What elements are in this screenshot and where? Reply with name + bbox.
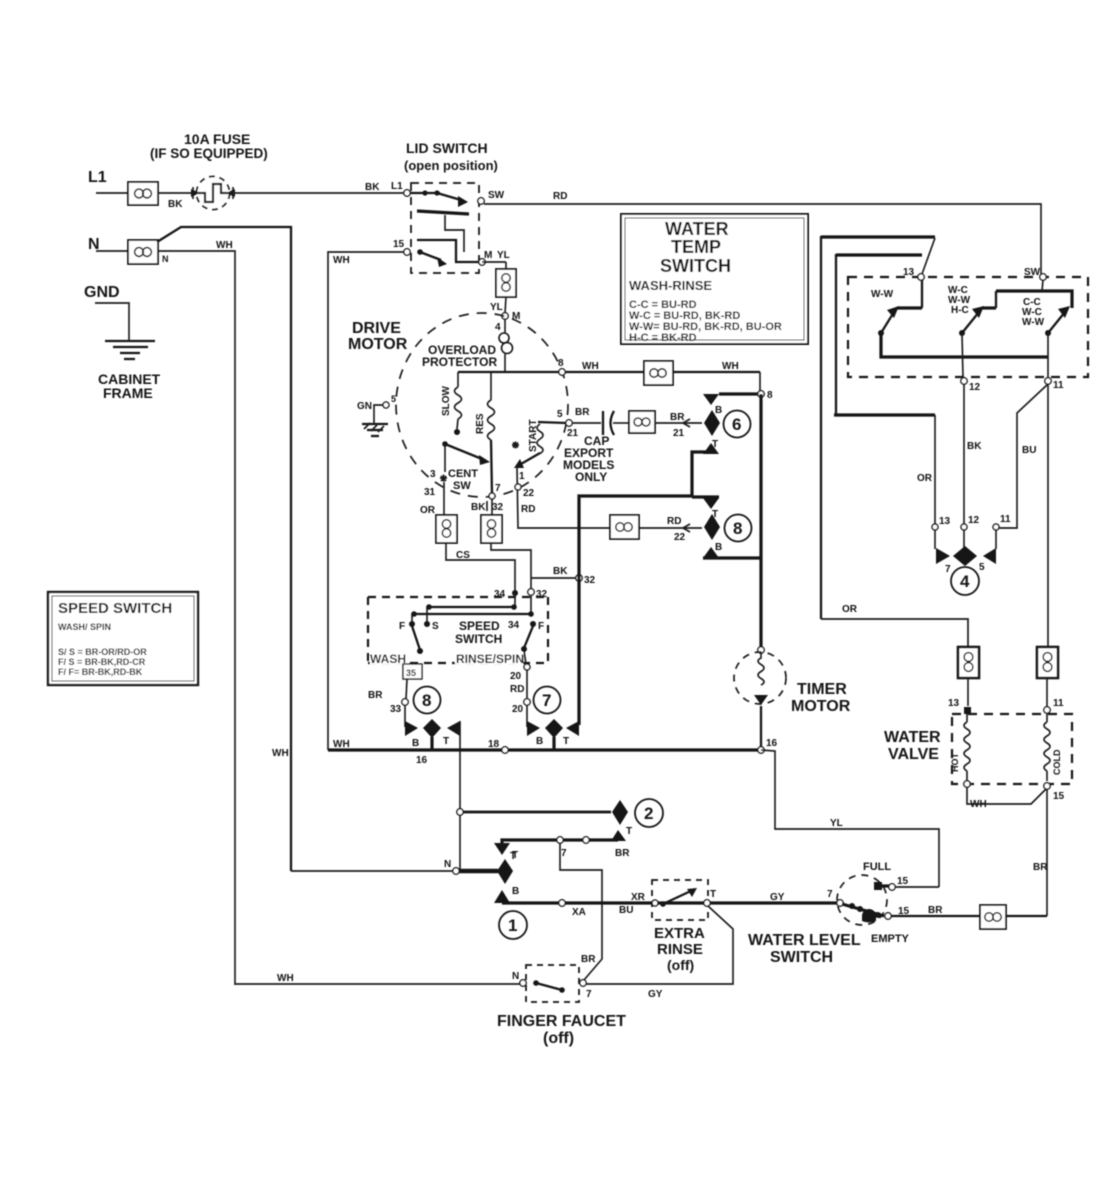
svg-text:T: T: [443, 736, 449, 747]
node 20: [512, 699, 530, 727]
svg-text:EXTRA: EXTRA: [654, 925, 705, 942]
label WATER LEVEL SWITCH: [748, 932, 861, 966]
wire motor bus: [458, 371, 760, 373]
svg-text:WH: WH: [333, 255, 350, 266]
svg-text:T: T: [563, 736, 569, 747]
lid switch S1 box: [411, 183, 479, 273]
svg-text:WH: WH: [272, 748, 289, 759]
svg-text:WASH: WASH: [370, 652, 406, 666]
node M lid switch: [479, 250, 510, 265]
svg-text:SWITCH: SWITCH: [660, 256, 731, 276]
terminal connector 1 diamond: [459, 850, 519, 903]
svg-text:COLD: COLD: [1052, 749, 1062, 775]
connector RD box: [610, 515, 639, 539]
svg-text:(off): (off): [667, 957, 694, 973]
svg-text:MOTOR: MOTOR: [348, 336, 408, 353]
node junction 812: [457, 809, 463, 815]
svg-text:RES: RES: [475, 413, 486, 434]
svg-text:(off): (off): [543, 1030, 574, 1047]
svg-text:22: 22: [523, 488, 535, 499]
svg-text:M: M: [484, 250, 492, 261]
svg-text:WATER: WATER: [665, 219, 729, 239]
svg-text:SWITCH: SWITCH: [770, 949, 833, 966]
coil RES main winding: [475, 372, 495, 494]
svg-text:11: 11: [1000, 514, 1011, 525]
circle 8: [725, 515, 752, 542]
node 32 top: [528, 589, 548, 600]
wire WH to N node: [291, 870, 453, 872]
terminal bracket connector 8 lower: [405, 719, 460, 749]
svg-text:B: B: [715, 542, 722, 553]
label WASH: [370, 652, 408, 666]
node 11 lower: [993, 514, 1011, 530]
svg-text:B: B: [512, 886, 519, 897]
svg-text:7: 7: [561, 848, 567, 859]
svg-text:SWITCH: SWITCH: [455, 632, 502, 646]
svg-text:BR: BR: [670, 412, 685, 423]
node 8 motor bus: [558, 358, 599, 375]
wire L1 lead: [96, 192, 128, 194]
svg-text:F/ F= BR-BK,RD-BK: F/ F= BR-BK,RD-BK: [58, 667, 143, 677]
extra rinse dashed box: [652, 880, 708, 920]
svg-text:18: 18: [488, 739, 500, 750]
connector L1: [128, 182, 158, 205]
svg-text:33: 33: [390, 704, 402, 715]
node 18 bus: [488, 739, 508, 753]
coil HOT valve: [950, 714, 970, 781]
node 3 / 31 column: [420, 444, 447, 516]
svg-text:T: T: [626, 826, 632, 837]
svg-text:32: 32: [584, 575, 596, 586]
svg-text:12: 12: [968, 515, 980, 526]
svg-text:RD: RD: [510, 684, 524, 695]
svg-text:35: 35: [406, 668, 416, 678]
svg-text:TIMER: TIMER: [797, 681, 847, 698]
water valve dashed box: [952, 714, 1072, 784]
connector WH motor line: [644, 361, 739, 385]
node valve bottom left: [964, 781, 970, 787]
svg-text:21: 21: [567, 428, 579, 439]
svg-text:BK: BK: [365, 182, 380, 193]
svg-text:RINSE: RINSE: [657, 941, 703, 958]
label SPEED SWITCH inner: [455, 619, 502, 646]
svg-text:15: 15: [393, 239, 405, 250]
terminal bracket connector 4: [935, 530, 996, 575]
svg-text:BR: BR: [575, 407, 590, 418]
ground GN motor: [357, 394, 396, 436]
svg-text:SW: SW: [488, 190, 505, 201]
svg-text:SPEED SWITCH: SPEED SWITCH: [58, 600, 172, 617]
svg-text:3: 3: [430, 469, 436, 480]
wire CS link: [446, 543, 515, 592]
svg-text:GY: GY: [770, 892, 785, 903]
coil COLD connector box: [1037, 647, 1058, 707]
svg-text:7: 7: [495, 483, 501, 494]
terminal bracket connector 6: [692, 394, 758, 496]
water temp switch dashed box: [848, 277, 1088, 377]
svg-text:N: N: [162, 254, 169, 264]
node 15 valve: [1044, 783, 1065, 802]
wire bus 903: [502, 892, 837, 918]
wire start output to RD row: [515, 467, 610, 528]
svg-text:START: START: [528, 419, 539, 452]
connector N: [128, 240, 169, 264]
svg-text:DRIVE: DRIVE: [352, 320, 401, 337]
svg-text:8: 8: [733, 519, 742, 538]
svg-text:BR: BR: [368, 690, 383, 701]
circle 2: [635, 799, 663, 827]
switch W-C contact: [948, 285, 996, 336]
svg-text:YL: YL: [830, 818, 843, 829]
wire thick elbow RD22: [579, 496, 692, 725]
water level switch dashed circle: [837, 875, 887, 925]
svg-text:1: 1: [519, 471, 525, 482]
wire T column down: [459, 721, 461, 869]
terminal bracket connector 7 lower: [527, 719, 579, 749]
switch rinse contact: [510, 626, 533, 698]
node 11: [1045, 378, 1064, 391]
wire WH corner to node 8 right: [759, 372, 761, 391]
svg-text:YL: YL: [490, 302, 503, 313]
label 10A FUSE: [150, 131, 268, 161]
svg-text:XR: XR: [631, 892, 646, 903]
svg-text:BR: BR: [928, 905, 943, 916]
svg-text:BR: BR: [1033, 862, 1048, 873]
svg-text:34: 34: [494, 589, 506, 600]
switch wash contact: [412, 626, 423, 654]
svg-text:15: 15: [1053, 791, 1065, 802]
svg-text:(IF SO EQUIPPED): (IF SO EQUIPPED): [150, 146, 268, 161]
svg-text:8: 8: [422, 691, 431, 710]
svg-text:PROTECTOR: PROTECTOR: [422, 355, 497, 369]
node N label: [88, 236, 100, 253]
svg-text:1: 1: [508, 916, 517, 935]
label OVERLOAD PROTECTOR: [422, 343, 497, 369]
svg-text:34: 34: [508, 620, 520, 631]
svg-text:T: T: [512, 850, 518, 861]
node 7 wls: [827, 889, 843, 906]
svg-text:BK: BK: [471, 502, 486, 513]
svg-text:GY: GY: [648, 989, 663, 1000]
finger faucet dashed box: [526, 965, 579, 1002]
svg-text:T: T: [710, 889, 716, 900]
svg-text:WH: WH: [277, 973, 294, 984]
svg-text:WASH-RINSE: WASH-RINSE: [629, 278, 712, 293]
svg-text:B: B: [536, 736, 543, 747]
speed switch terminals: [399, 620, 544, 632]
node 32 right: [576, 575, 596, 586]
switch wls contact: [842, 903, 884, 922]
coil START winding: [537, 424, 543, 454]
svg-text:W-W: W-W: [1022, 317, 1045, 328]
svg-text:N: N: [512, 971, 519, 982]
timer motor: [734, 647, 786, 749]
svg-text:WH: WH: [216, 240, 233, 251]
svg-text:BU: BU: [619, 905, 633, 916]
node L1 lid switch: [404, 190, 410, 196]
svg-text:TEMP: TEMP: [671, 237, 721, 257]
wire WH valve jumper: [967, 787, 1046, 810]
coil connector OR box: [436, 515, 457, 543]
label RINSE/SPIN: [455, 652, 524, 666]
label DRIVE MOTOR: [348, 320, 408, 353]
svg-text:OR: OR: [917, 473, 933, 484]
svg-text:RD: RD: [553, 191, 567, 202]
inner box BK path: [834, 254, 935, 415]
svg-text:N: N: [444, 859, 451, 870]
svg-text:L1: L1: [391, 181, 403, 192]
label EXTRA RINSE: [654, 925, 705, 973]
label LID SWITCH: [404, 140, 498, 173]
terminal 35 box: [403, 664, 422, 699]
svg-text:F: F: [399, 621, 405, 632]
svg-text:SW: SW: [453, 480, 471, 492]
node SW lid switch: [478, 190, 505, 204]
wire BK 12 down: [964, 384, 982, 524]
wire EMPTY to connector: [891, 915, 980, 917]
outer box OR path: [821, 236, 935, 619]
connector BR box wls: [980, 905, 1006, 929]
fuse F1 10A: [191, 177, 235, 210]
svg-text:MOTOR: MOTOR: [791, 698, 851, 715]
svg-text:5: 5: [557, 409, 563, 420]
label WATER TEMP SWITCH box: [621, 214, 808, 344]
svg-text:12: 12: [969, 382, 981, 393]
wire BU 11 diagonal down: [999, 384, 1048, 528]
wire BR valve down: [1033, 789, 1048, 916]
wire YL riser: [761, 750, 939, 887]
svg-text:WH: WH: [722, 361, 739, 372]
node 12 lower: [961, 515, 980, 530]
svg-text:OR: OR: [842, 604, 858, 615]
svg-text:32: 32: [492, 502, 504, 513]
coil M-YL connector box: [482, 262, 516, 313]
speed switch legend box: [48, 592, 198, 685]
wire node12 branch: [962, 333, 963, 378]
wire SW to RD top run: [484, 191, 1041, 274]
wire BR row from start coil: [538, 409, 566, 423]
node EMPTY: [871, 905, 943, 945]
label CAP EXPORT MODELS ONLY: [563, 434, 614, 484]
switch C-C contact: [996, 291, 1072, 336]
wire BR to diamond 6: [655, 412, 702, 439]
svg-text:RINSE/SPIN: RINSE/SPIN: [456, 652, 524, 666]
svg-text:13: 13: [903, 267, 915, 278]
wire to connector 2: [463, 811, 611, 814]
svg-text:5: 5: [979, 562, 985, 573]
svg-text:L1: L1: [88, 169, 107, 186]
svg-text:EMPTY: EMPTY: [871, 933, 910, 945]
svg-text:H-C: H-C: [951, 305, 969, 316]
svg-text:11: 11: [1053, 380, 1064, 391]
wire BK connector to fuse: [158, 193, 198, 210]
wire BK fuse to lid switch: [228, 181, 404, 193]
node 15 lid switch: [393, 239, 410, 255]
circle 6: [724, 411, 751, 438]
svg-text:7: 7: [586, 989, 592, 1000]
circle 4: [951, 567, 979, 595]
svg-text:XA: XA: [572, 907, 586, 918]
svg-text:2: 2: [644, 804, 653, 823]
wire 7 drop to finger faucet: [560, 843, 602, 980]
label CABINET FRAME: [98, 371, 161, 401]
svg-text:SLOW: SLOW: [441, 385, 452, 416]
svg-text:(open position): (open position): [404, 158, 498, 173]
svg-text:YL: YL: [497, 250, 510, 261]
svg-text:15: 15: [897, 876, 909, 887]
svg-text:WASH/ SPIN: WASH/ SPIN: [58, 622, 111, 632]
svg-text:21: 21: [673, 428, 685, 439]
wire WH into pin 15: [328, 252, 404, 750]
svg-text:FRAME: FRAME: [103, 385, 153, 401]
svg-text:7: 7: [827, 889, 833, 900]
svg-text:WATER: WATER: [884, 729, 941, 746]
svg-text:LID SWITCH: LID SWITCH: [406, 140, 488, 156]
svg-text:GND: GND: [84, 284, 120, 301]
switch CENT SW contact: [442, 441, 490, 492]
wire GY bottom: [586, 906, 733, 1000]
node 7 center: [471, 483, 504, 513]
lid switch top contact: [410, 190, 468, 207]
wire BK to node 32: [491, 543, 576, 592]
lid switch inner links: [417, 211, 479, 262]
wire bottom WH run: [235, 973, 521, 984]
wire main right vertical: [759, 394, 762, 648]
wire OR inner box down: [917, 415, 935, 524]
svg-text:8: 8: [767, 390, 773, 401]
svg-text:ONLY: ONLY: [575, 470, 607, 484]
node N lower: [444, 859, 459, 874]
capacitor CAP export: [572, 411, 629, 435]
coil connector BK box: [481, 499, 502, 543]
node 11 valve: [1044, 698, 1064, 713]
svg-text:W-W: W-W: [871, 289, 894, 300]
wire N lead: [96, 250, 128, 252]
svg-text:FINGER FAUCET: FINGER FAUCET: [497, 1013, 626, 1030]
svg-text:4: 4: [495, 322, 501, 333]
lid switch bottom contact: [417, 249, 447, 267]
wire main bus: [272, 739, 761, 766]
svg-text:7: 7: [542, 691, 551, 710]
switch wls full contact: [863, 861, 939, 890]
svg-text:FULL: FULL: [863, 861, 891, 873]
node SW top: [1024, 267, 1046, 291]
svg-text:4: 4: [960, 572, 970, 591]
svg-text:WH: WH: [333, 739, 350, 750]
circle 1: [499, 911, 527, 939]
svg-text:11: 11: [1053, 698, 1064, 709]
terminal connector 2 diamond: [611, 800, 632, 841]
svg-text:7: 7: [945, 564, 951, 575]
svg-text:31: 31: [424, 487, 436, 498]
svg-text:CS: CS: [456, 550, 470, 561]
svg-text:H-C = BK-RD: H-C = BK-RD: [629, 332, 697, 344]
connector BR box: [629, 411, 655, 433]
node 12: [961, 378, 981, 393]
node 5: [566, 407, 590, 439]
terminal bracket connector 8: [692, 497, 761, 558]
svg-text:SPEED: SPEED: [459, 619, 500, 633]
svg-text:6: 6: [732, 415, 741, 434]
circle 7 speed: [534, 687, 561, 714]
svg-text:20: 20: [510, 671, 522, 682]
wire temp switch bottom bar: [881, 333, 1048, 357]
wire GY to water level switch label: [770, 892, 785, 903]
node 13 top: [903, 267, 924, 280]
svg-text:WH: WH: [970, 799, 987, 810]
label WATER VALVE: [884, 729, 941, 763]
wire WH from N connector down left column: [158, 240, 235, 985]
svg-text:B: B: [715, 405, 722, 416]
node 8 right vertical: [758, 390, 773, 401]
svg-text:8: 8: [558, 358, 564, 369]
switch extra rinse contact: [652, 888, 716, 907]
svg-text:CENT: CENT: [448, 468, 478, 480]
wire RD row: [639, 516, 702, 543]
svg-text:BK: BK: [553, 566, 568, 577]
label TIMER MOTOR: [791, 681, 851, 715]
coil SLOW winding: [441, 372, 462, 435]
wire BR connector to valve riser: [1006, 915, 1047, 917]
wire diag to node 13: [922, 238, 935, 274]
svg-text:WH: WH: [582, 361, 599, 372]
svg-text:22: 22: [674, 532, 686, 543]
svg-text:S/ S = BR-OR/RD-OR: S/ S = BR-OR/RD-OR: [58, 647, 147, 657]
drive motor dashed circle: [396, 313, 568, 497]
switch finger faucet contact: [512, 971, 592, 1000]
wire OR lower run: [821, 604, 968, 647]
node 33: [368, 690, 408, 727]
svg-text:B: B: [412, 738, 419, 749]
node 13 valve: [948, 698, 971, 714]
node 16 bus right: [758, 738, 778, 753]
speed switch dashed box: [368, 597, 548, 663]
speed switch bars: [411, 595, 534, 624]
svg-text:RD: RD: [521, 504, 535, 515]
switch W-W contact: [871, 280, 922, 336]
svg-text:16: 16: [766, 738, 778, 749]
svg-text:VALVE: VALVE: [888, 746, 939, 763]
svg-text:32: 32: [536, 589, 548, 600]
svg-text:BR: BR: [615, 848, 630, 859]
svg-text:16: 16: [416, 755, 428, 766]
svg-text:GN: GN: [357, 401, 372, 412]
svg-text:SW: SW: [1024, 267, 1041, 278]
coil HOT connector box: [958, 647, 979, 706]
svg-text:13: 13: [939, 516, 951, 527]
overload protector: [499, 319, 513, 372]
svg-text:BK: BK: [168, 199, 183, 210]
wire BR row 840: [494, 837, 630, 862]
coil COLD valve: [1044, 714, 1062, 781]
switch START contact: [512, 419, 540, 468]
svg-text:OR: OR: [420, 505, 436, 516]
wire COLD vertical: [1047, 384, 1049, 647]
svg-text:20: 20: [512, 704, 524, 715]
ground GND cabinet frame: [84, 284, 155, 359]
wire N diagonal to second column: [157, 227, 291, 871]
svg-text:BK: BK: [967, 441, 982, 452]
wire node11 branch: [1047, 333, 1049, 378]
svg-text:10A FUSE: 10A FUSE: [184, 131, 250, 147]
node 34 top: [494, 589, 518, 600]
node M drive motor: [495, 311, 520, 333]
circle 8 speed: [414, 687, 441, 714]
node 13 lower: [932, 516, 951, 530]
svg-text:HOT: HOT: [950, 753, 960, 773]
svg-text:WATER LEVEL: WATER LEVEL: [748, 932, 861, 949]
svg-text:F: F: [538, 621, 544, 632]
